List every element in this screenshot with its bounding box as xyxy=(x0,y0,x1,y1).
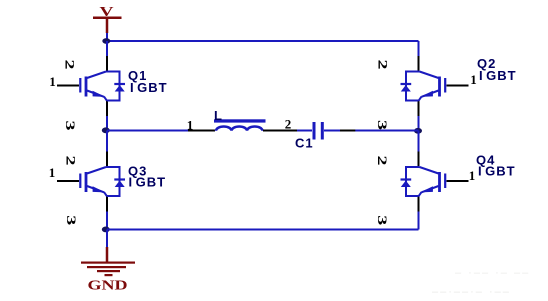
wire top rail horizontal xyxy=(107,40,419,42)
inductor L xyxy=(188,119,297,131)
wire C1 to mid-right junction xyxy=(324,130,419,132)
capacitor C1 xyxy=(313,122,324,140)
wire bottom junction to ground xyxy=(106,230,108,248)
wire mid rail left segment xyxy=(107,130,188,132)
svg-text:C1: C1 xyxy=(295,136,314,151)
wire black pin segment right of C1 xyxy=(340,130,355,132)
svg-text:2: 2 xyxy=(376,60,391,70)
svg-text:1: 1 xyxy=(469,168,476,183)
svg-text:2: 2 xyxy=(64,156,79,166)
svg-text:1: 1 xyxy=(49,74,56,89)
wire Q2 emitter to mid rail xyxy=(418,116,420,131)
wire L to C1 xyxy=(297,130,312,132)
transistor Q4 (mirrored) xyxy=(401,152,469,212)
wire V stem to top rail xyxy=(106,33,108,41)
svg-text:3: 3 xyxy=(64,215,79,226)
ground xyxy=(81,247,135,294)
svg-text:2: 2 xyxy=(62,60,77,70)
svg-text:3: 3 xyxy=(375,120,390,131)
svg-text:2: 2 xyxy=(285,117,292,132)
svg-text:L: L xyxy=(214,108,223,123)
transistor Q2 (mirrored) xyxy=(401,56,469,116)
node junction top-left xyxy=(102,38,110,44)
svg-text:3: 3 xyxy=(63,121,78,132)
svg-text:2: 2 xyxy=(375,156,390,166)
svg-text:3: 3 xyxy=(375,215,390,226)
transistor Q3 xyxy=(57,152,125,212)
wire left rail above Q1 xyxy=(106,41,108,56)
node junction mid-left xyxy=(102,127,110,133)
svg-text:– ·–– ·– ––: – ·–– ·– –– xyxy=(455,267,530,279)
svg-text:––·––·– ·––: ––·––·– ·–– xyxy=(432,286,511,298)
wire mid-right down to Q4 xyxy=(418,131,420,152)
node junction mid-right xyxy=(414,128,422,134)
wire top rail right drop xyxy=(418,41,420,56)
svg-text:GND: GND xyxy=(88,279,128,294)
node junction bottom-left xyxy=(102,227,110,233)
wire mid-left down to Q3 xyxy=(106,131,108,152)
wire Q3 emitter to bottom rail xyxy=(106,212,108,230)
wire Q4 emitter to bottom corner xyxy=(418,212,420,230)
svg-text:1: 1 xyxy=(49,165,56,180)
svg-text:1: 1 xyxy=(470,72,477,87)
wire Q1 emitter to mid rail xyxy=(106,116,108,131)
wire bottom rail horizontal xyxy=(107,229,419,231)
transistor Q1 xyxy=(57,56,125,116)
power symbol V supply xyxy=(93,5,122,33)
